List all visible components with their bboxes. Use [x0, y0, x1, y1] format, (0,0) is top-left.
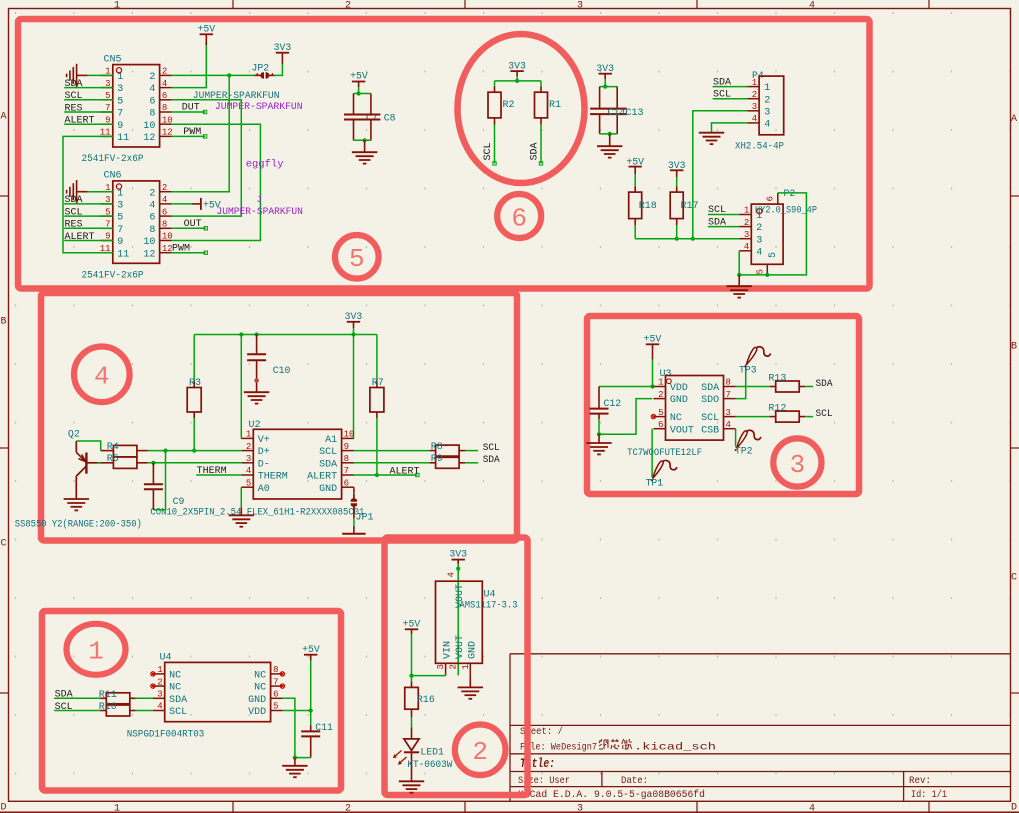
svg-text:11: 11	[117, 249, 129, 260]
svg-text:1: 1	[744, 206, 749, 216]
svg-text:1: 1	[114, 0, 120, 11]
svg-text:JUMPER-SPARKFUN: JUMPER-SPARKFUN	[217, 206, 304, 217]
label SDA (U4)	[54, 690, 100, 701]
svg-text:C8: C8	[384, 112, 396, 123]
power flag 3V3 (U2)	[345, 311, 363, 328]
svg-text:3: 3	[117, 201, 123, 212]
junction P4 pin3 net	[691, 237, 695, 241]
junction C12 bottom	[597, 432, 601, 436]
annotation circle 5	[335, 235, 379, 279]
svg-text:3: 3	[246, 454, 251, 464]
svg-text:R17: R17	[681, 201, 699, 212]
svg-text:A0: A0	[258, 484, 270, 495]
wire SDO to TP3	[736, 365, 746, 399]
svg-text:10: 10	[143, 121, 155, 132]
wire CN5 pin2 to CN6 pin2	[172, 75, 229, 191]
svg-text:R2: R2	[503, 100, 515, 111]
junction R16 VIN	[409, 674, 413, 678]
svg-text:NC: NC	[169, 683, 181, 694]
wire P2 pin4 loop	[739, 193, 806, 275]
wire C11 bottom	[295, 757, 311, 759]
label SDA (U3)	[805, 378, 833, 390]
junction rail-3V3	[351, 332, 355, 336]
value KT-0603W	[407, 760, 453, 771]
junction U3 VDD	[650, 384, 654, 388]
power flag +5V (CN6 pin4)	[172, 198, 221, 211]
resistor R16	[405, 676, 435, 717]
svg-text:D: D	[1011, 803, 1017, 813]
ground below C13 C14	[597, 134, 622, 158]
wire R2 to SCL	[493, 125, 496, 165]
annotation ellipse region 6	[458, 34, 585, 183]
svg-text:10: 10	[344, 430, 355, 440]
svg-text:VIN: VIN	[442, 641, 453, 659]
wire SCL to CN5	[101, 99, 113, 101]
svg-text:R3: R3	[189, 378, 201, 389]
power flag +5V (R18)	[626, 157, 644, 175]
svg-text:3V3: 3V3	[508, 60, 526, 71]
svg-text:JUMPER-SPARKFUN: JUMPER-SPARKFUN	[215, 101, 303, 112]
junction rail-C10	[255, 332, 259, 336]
svg-text:8: 8	[149, 225, 155, 236]
wire +5V to caps	[354, 87, 371, 94]
test point TP1	[646, 460, 677, 488]
power flag +5V (top)	[197, 24, 215, 46]
svg-text:R5: R5	[107, 454, 119, 465]
label SCL (CN5)	[64, 91, 100, 102]
svg-text:12: 12	[143, 133, 155, 144]
ground at CN6 pin1	[67, 180, 88, 203]
svg-text:3: 3	[436, 664, 446, 669]
annotation circle 6	[497, 194, 541, 238]
resistor R2	[488, 87, 515, 125]
wire RES to CN5	[101, 111, 113, 113]
resistor R8	[430, 442, 466, 456]
svg-text:7: 7	[117, 109, 123, 120]
label SCL (U4)	[54, 702, 100, 713]
wire CSB to TP2	[735, 429, 737, 447]
wire caps C13 C14 bottom	[600, 133, 618, 135]
field mark J (CN6)	[257, 195, 262, 205]
annotation circle 1	[67, 624, 126, 675]
svg-text:7: 7	[726, 390, 731, 400]
svg-text:V+: V+	[258, 435, 270, 446]
svg-text:3V3: 3V3	[449, 549, 467, 560]
svg-text:NC: NC	[169, 671, 181, 682]
power flag +5V (U3)	[644, 334, 662, 360]
wire U4 VDD to +5V	[282, 710, 310, 712]
ground below C7 C8	[352, 140, 377, 163]
value XH2.54-4P	[735, 140, 784, 151]
label SDA (CN6)	[64, 195, 100, 206]
annotation box region 4	[41, 293, 517, 541]
svg-text:5: 5	[273, 702, 278, 712]
svg-text:4: 4	[752, 114, 757, 124]
wire CN6 pin1	[88, 191, 113, 193]
label SDA (CN5)	[64, 79, 100, 90]
svg-text:GND: GND	[467, 641, 478, 659]
power flag 3V3 (R17)	[668, 160, 686, 177]
wire SCL to CN6	[101, 215, 113, 217]
svg-text:4: 4	[246, 466, 251, 476]
svg-text:SCL: SCL	[319, 447, 337, 458]
wire CN5 pin6 to CN6 pin6	[172, 100, 242, 216]
wire SDA row (U2)	[354, 462, 430, 464]
svg-text:KiCad E.D.A. 9.0.5-5-ga08B0656: KiCad E.D.A. 9.0.5-5-ga08B0656fd	[518, 789, 705, 801]
transistor Q2 SS8550	[68, 429, 101, 499]
svg-text:6: 6	[149, 213, 155, 224]
wire R10 to U4	[136, 710, 153, 712]
svg-text:4: 4	[157, 702, 162, 712]
svg-text:3V3: 3V3	[596, 63, 614, 74]
value CON10_2X5PIN_2.54_FLEX_61H1-R2XXXX085C01	[150, 507, 364, 518]
wire P4 pin4 to ground	[712, 123, 748, 133]
svg-text:+5V: +5V	[197, 24, 215, 35]
wire U3 GND to C12	[599, 399, 652, 435]
svg-text:2: 2	[162, 183, 167, 193]
svg-text:+5V: +5V	[644, 334, 662, 345]
svg-text:4: 4	[809, 804, 815, 813]
capacitor C14	[590, 87, 609, 134]
label SCL (CN6)	[64, 207, 100, 218]
wire ALERT (U2)	[354, 473, 419, 476]
junction C7 C8 bottom	[363, 138, 367, 142]
svg-text:8: 8	[149, 109, 155, 120]
annotation circle 3	[773, 438, 821, 486]
junction D+ branch	[163, 449, 167, 453]
svg-text:6: 6	[162, 207, 167, 217]
svg-text:2541FV-2x6P: 2541FV-2x6P	[82, 270, 144, 281]
wire rail to V+	[240, 335, 242, 439]
svg-text:3: 3	[726, 408, 731, 418]
wire RES to CN6	[101, 227, 113, 229]
field JUMPER-SPARKFUN (JP2)	[215, 101, 303, 112]
wire caps bottom	[354, 139, 371, 141]
op-amp U2 sensor IC	[241, 420, 354, 499]
wire P4 pin3 down	[693, 111, 747, 239]
wire +5V down (U4)	[310, 660, 312, 711]
label ALERT (CN5)	[64, 116, 100, 127]
svg-text:C11: C11	[315, 722, 333, 733]
svg-text:SDA: SDA	[701, 383, 719, 394]
svg-text:2: 2	[744, 218, 749, 228]
svg-text:5: 5	[755, 269, 765, 274]
svg-text:2: 2	[472, 737, 488, 767]
value NSPGD1F004RT03	[127, 729, 205, 740]
svg-text:3: 3	[577, 804, 583, 813]
svg-text:CSB: CSB	[701, 425, 719, 436]
svg-text:C: C	[0, 539, 6, 550]
label SCL (U2 out)	[465, 442, 500, 454]
label THERM	[196, 466, 241, 477]
label RES (CN5)	[64, 103, 100, 114]
svg-text:1: 1	[117, 72, 123, 83]
svg-text:B: B	[1011, 342, 1017, 353]
junction D- C9	[151, 461, 155, 465]
svg-text:4: 4	[162, 195, 167, 205]
svg-text:A: A	[0, 112, 6, 123]
svg-text:VDD: VDD	[670, 383, 688, 394]
svg-text:7: 7	[117, 225, 123, 236]
label PWM (CN6 pin12)	[172, 243, 208, 254]
junction reg pin4	[456, 567, 460, 571]
ground below C10	[244, 392, 269, 403]
svg-text:1: 1	[117, 188, 123, 199]
svg-text:TP3: TP3	[739, 364, 757, 375]
power flag +5V (U4)	[302, 644, 320, 660]
svg-text:C: C	[1011, 573, 1017, 584]
junction 3V3 (R1 R2)	[515, 79, 519, 83]
svg-text:GND: GND	[670, 395, 688, 406]
svg-text:R11: R11	[99, 690, 117, 701]
connector CN6 2541FV-2x6P	[100, 171, 173, 264]
ground below P2	[727, 275, 752, 298]
ground at regulator GND	[458, 675, 483, 698]
svg-text:4: 4	[149, 201, 155, 212]
resistor R9	[430, 454, 466, 468]
svg-text:THERM: THERM	[258, 472, 288, 483]
resistor R11	[99, 690, 136, 704]
svg-text:R12: R12	[768, 403, 786, 414]
svg-text:8: 8	[273, 665, 278, 675]
resistor R7	[370, 335, 384, 476]
svg-text:AMS1117-3.3: AMS1117-3.3	[460, 600, 518, 611]
svg-text:C10: C10	[273, 365, 291, 376]
annotation box region 3	[587, 316, 859, 494]
value C14C13	[608, 107, 644, 118]
svg-text:3: 3	[764, 107, 770, 118]
connector P2 HY2.0_S90_4P	[739, 188, 795, 275]
wire SCL to R12	[736, 416, 770, 418]
wire SDA to CN6	[101, 203, 113, 205]
svg-text:3: 3	[752, 102, 757, 112]
svg-text:1: 1	[114, 804, 120, 813]
svg-text:Date:: Date:	[621, 775, 648, 787]
svg-text:SDA: SDA	[816, 378, 834, 390]
ref U4 (regulator)	[484, 590, 496, 601]
svg-text:J: J	[257, 195, 262, 205]
svg-text:R13: R13	[768, 373, 786, 384]
svg-text:2: 2	[149, 72, 155, 83]
svg-text:Rev:: Rev:	[909, 775, 931, 787]
svg-text:R7: R7	[372, 378, 384, 389]
svg-text:2: 2	[449, 664, 459, 669]
wire U4 GND down	[282, 698, 295, 757]
svg-text:D+: D+	[258, 447, 270, 458]
svg-text:SDA: SDA	[169, 695, 187, 706]
capacitor C13	[608, 87, 627, 134]
resistor R10	[99, 702, 136, 716]
wire CN5 pin2 to JP2	[172, 74, 255, 76]
ground at Q2 collector	[64, 499, 89, 510]
svg-text:NC: NC	[670, 413, 682, 424]
svg-text:SCL: SCL	[169, 707, 187, 718]
resistor R18	[629, 186, 657, 225]
wire Q2 emitter to R4	[76, 441, 100, 451]
svg-text:NSPGD1F004RT03: NSPGD1F004RT03	[127, 729, 205, 740]
annotation circle 2	[455, 725, 506, 776]
regulator U4 AMS1117-3.3	[436, 572, 483, 675]
junction C13 C14 bottom	[608, 132, 612, 136]
wire VOUT to TP1	[651, 429, 653, 477]
wire VDD to C12	[599, 386, 653, 388]
svg-text:TP1: TP1	[646, 478, 664, 489]
svg-text:5: 5	[117, 213, 123, 224]
svg-text:1: 1	[752, 78, 757, 88]
svg-text:4: 4	[744, 242, 749, 252]
svg-text:CON10_2X5PIN_2.54_FLEX_61H1-R2: CON10_2X5PIN_2.54_FLEX_61H1-R2XXXX085C01	[150, 507, 364, 518]
svg-text:6: 6	[273, 690, 278, 700]
resistor R4	[101, 442, 148, 457]
svg-text:6: 6	[344, 478, 349, 488]
annotation box region 1	[42, 611, 341, 791]
svg-text:10: 10	[143, 237, 155, 248]
wire rail to A1	[353, 335, 355, 439]
capacitor C11	[301, 711, 333, 758]
svg-text:R18: R18	[639, 201, 657, 212]
power flag 3V3 (R1 R2)	[508, 60, 526, 76]
svg-text:6: 6	[149, 96, 155, 107]
power flag +5V (R16)	[403, 619, 421, 635]
svg-text:4: 4	[764, 120, 770, 131]
svg-text:NC: NC	[254, 683, 266, 694]
ground below C11	[282, 758, 307, 778]
label SCL (P2 pin1)	[708, 205, 739, 216]
svg-text:1: 1	[157, 665, 162, 675]
svg-text:C12: C12	[604, 398, 622, 409]
svg-text:VDD: VDD	[248, 707, 266, 718]
op-amp U3 TC7WOOFUTE12LF	[651, 369, 735, 440]
svg-text:C14C13: C14C13	[608, 107, 644, 118]
svg-text:TP2: TP2	[735, 446, 753, 457]
junction R3-D+	[192, 449, 196, 453]
test point TP3	[739, 347, 771, 376]
svg-text:R8: R8	[431, 442, 443, 453]
power flag +5V (C7 C8)	[350, 71, 368, 87]
svg-text:10: 10	[162, 232, 173, 242]
svg-text:2: 2	[756, 223, 762, 234]
ground below C12	[586, 434, 611, 454]
svg-text:A1: A1	[325, 435, 337, 446]
resistor R12	[768, 403, 805, 422]
svg-text:SDA: SDA	[529, 142, 540, 160]
capacitor C10	[247, 335, 290, 393]
svg-text:.kicad_sch: .kicad_sch	[634, 742, 716, 754]
svg-text:R1: R1	[549, 100, 561, 111]
label ALERT (U2)	[390, 466, 420, 477]
svg-text:XH2.54-4P: XH2.54-4P	[735, 140, 784, 151]
svg-text:3: 3	[756, 235, 762, 246]
svg-text:5: 5	[246, 478, 251, 488]
svg-text:6: 6	[658, 420, 663, 430]
ground at CN5 pin1	[67, 64, 88, 87]
field JUMPER-SPARKFUN (CN6)	[217, 206, 304, 217]
label OUT (CN6 pin8)	[172, 219, 208, 230]
svg-text:6: 6	[765, 196, 775, 201]
svg-text:R9: R9	[431, 454, 443, 465]
label ALERT (CN6)	[64, 232, 100, 243]
label SDA (P2 pin2)	[708, 217, 739, 228]
svg-text:SDA: SDA	[483, 454, 501, 466]
svg-text:3V3: 3V3	[274, 42, 292, 53]
svg-text:JP2: JP2	[252, 63, 270, 74]
svg-text:3V3: 3V3	[345, 311, 363, 322]
wire +5V to VIN	[412, 634, 446, 676]
svg-text:C9: C9	[173, 496, 185, 507]
svg-text:7: 7	[273, 677, 278, 687]
svg-text:SCL: SCL	[701, 413, 719, 424]
svg-text:SCL: SCL	[483, 142, 494, 160]
wire 3V3 to caps C13 C14	[600, 79, 618, 87]
svg-text:4: 4	[726, 420, 731, 430]
svg-text:Q2: Q2	[68, 429, 80, 440]
field SS8550 Y2(RANGE:200-350)	[15, 518, 142, 529]
svg-text:GND: GND	[248, 695, 266, 706]
svg-text:B: B	[0, 317, 6, 328]
svg-text:ALERT: ALERT	[307, 472, 337, 483]
svg-text:2: 2	[658, 390, 663, 400]
wire SCL row (U2)	[354, 450, 430, 452]
junction R17 net	[675, 237, 679, 241]
svg-text:2: 2	[149, 188, 155, 199]
junction C7 C8 top	[357, 91, 361, 95]
svg-text:3: 3	[117, 84, 123, 95]
svg-text:4: 4	[809, 0, 815, 11]
svg-text:2: 2	[345, 0, 351, 11]
ground bar below JP1	[342, 526, 365, 534]
svg-text:12: 12	[162, 128, 173, 138]
svg-text:CN5: CN5	[104, 54, 122, 65]
wire CN5 pin11 to CN6 pin11	[63, 136, 113, 252]
wire ALERT to CN5	[101, 123, 113, 125]
capacitor C7	[344, 94, 378, 141]
label SDA (P4 pin1)	[713, 77, 748, 88]
resistor R17	[670, 186, 698, 225]
label RES (CN6)	[64, 220, 100, 231]
annotation circle 4	[74, 347, 130, 403]
svg-text:2: 2	[157, 677, 162, 687]
svg-text:6: 6	[162, 91, 167, 101]
svg-text:VOUT: VOUT	[455, 635, 466, 659]
svg-text:10: 10	[162, 115, 173, 125]
value 2541FV-2x6P (CN5)	[82, 153, 144, 164]
junction at CN5 pin2 net	[227, 73, 231, 77]
svg-text:A: A	[1011, 114, 1017, 125]
svg-text:12: 12	[143, 249, 155, 260]
junction P2 pin5 net	[765, 273, 769, 277]
svg-text:VOUT: VOUT	[670, 425, 694, 436]
jumper JP2	[252, 63, 276, 79]
svg-text:+5V: +5V	[403, 619, 421, 630]
svg-text:9: 9	[117, 121, 123, 132]
svg-text:3: 3	[790, 450, 806, 480]
connector P4 XH2.54-4P	[747, 70, 783, 135]
svg-text:3: 3	[157, 690, 162, 700]
svg-text:7: 7	[344, 466, 349, 476]
svg-text:1: 1	[88, 637, 104, 667]
svg-text:4: 4	[447, 572, 457, 577]
wire CN5 pin1	[88, 74, 113, 76]
power flag 3V3 (C13 C14)	[596, 63, 614, 79]
wire 3V3 rail (U2)	[194, 328, 377, 335]
power flag 3V3 (U4 reg)	[449, 549, 467, 565]
junction GND C11	[293, 756, 297, 760]
svg-text:SS8550 Y2(RANGE:200-350): SS8550 Y2(RANGE:200-350)	[15, 518, 142, 529]
svg-text:1: 1	[658, 378, 663, 388]
svg-text:2: 2	[246, 442, 251, 452]
svg-text:9: 9	[117, 237, 123, 248]
svg-text:2541FV-2x6P: 2541FV-2x6P	[82, 153, 144, 164]
